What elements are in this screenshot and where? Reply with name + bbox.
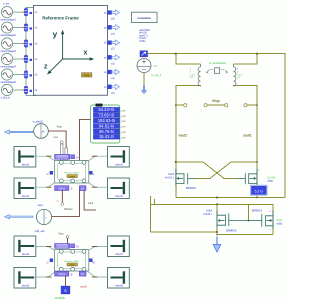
G9a: wires between clusters [57,191,97,248]
svg-text:D: D [47,173,49,176]
svg-text:wheel6: wheel6 [22,254,30,256]
junction Q1 drain [175,161,177,163]
svg-text:M: M [82,273,84,276]
L1 pin/value labels [189,69,195,79]
left pin labels [35,12,38,92]
svg-text:vi_abs(3): vi_abs(3) [33,121,43,124]
junction bottom rail right [256,197,258,199]
svg-text:1 Ω: 1 Ω [189,77,193,79]
svg-text:wheel8: wheel8 [115,286,123,288]
svg-text:y: y [53,29,58,39]
source V2 [1,22,12,33]
svg-text:f=50s: f=50s [139,40,146,43]
svg-text:v_sin: v_sin [3,1,10,5]
svg-text:sout1: sout1 [243,134,252,138]
junction Q3 drain [216,203,218,205]
svg-text:pmsm: pmsm [69,176,75,178]
svg-text:sineVoltage4: sineVoltage4 [1,65,17,69]
svg-text:#750: #750 [268,180,274,183]
axes [47,30,94,75]
svg-text:vkp1: vkp1 [38,204,44,207]
svg-text:Vtop: Vtop [58,231,64,235]
signal input connector on source V1 [140,51,148,57]
svg-text:39.76-5i: 39.76-5i [99,129,114,134]
inductor L1 [198,64,200,86]
y axis [62,34,64,60]
connecting rods [36,156,108,187]
svg-text:wheel2: wheel2 [22,165,30,167]
wire: Q3 gate feed vertical [248,204,250,220]
svg-text:VBellum: VBellum [64,208,73,211]
wire: cross-coupling A (left drain to Q2 gate) [176,162,237,178]
svg-text:sineVoltage3: sineVoltage3 [1,49,17,53]
G2: reference frame block [34,6,108,96]
svg-text:64.43+0i: 64.43+0i [98,107,114,112]
svg-text:vout2: vout2 [179,134,188,138]
svg-text:m0b2: m0b2 [276,222,283,225]
junction ground node [216,231,218,233]
wire source bottom to ground [143,73,145,87]
svg-text:constants: constants [137,16,151,20]
svg-text:1 Ω: 1 Ω [237,77,241,79]
svg-text:BRMRGS: BRMRGS [252,210,263,212]
machine block [55,161,89,184]
side pins [50,171,53,174]
svg-text:frame: frame [84,74,91,77]
G7: sensors [5,121,80,233]
wire: vout1 stub [247,104,257,106]
G4: constants block + parameter list [132,12,158,43]
wire: cross-coupling B (right drain to Q1 gate) [196,162,257,178]
svg-text:wheel4: wheel4 [115,196,123,198]
wheel boxes [14,147,36,168]
junction Q2 drain [256,161,258,163]
sensor2 output wire [52,216,80,218]
svg-text:_mid: _mid [119,115,126,118]
junction Q4 source rail [216,234,218,236]
svg-text:sineVoltage2: sineVoltage2 [1,33,17,37]
x axis [63,58,91,60]
G6: display column [79,104,126,161]
svg-text:wheel5: wheel5 [22,286,30,288]
svg-text:1.1: 1.1 [153,64,157,68]
pin vout2 [184,104,187,107]
junction node B (top rail / L2 feed) [256,53,258,55]
wire: L1 return / left loop vertical [176,85,201,197]
svg-text:VΩ=2: VΩ=2 [59,273,66,276]
svg-text:_mid: _mid [119,120,126,123]
svg-text:m: seriesInduct: m: seriesInduct [209,62,226,65]
svg-text:vLM_abs: vLM_abs [35,230,46,233]
svg-text:VΩ=2: VΩ=2 [59,188,66,191]
machine block [55,250,89,272]
pin vout1 [244,104,247,107]
transistor Q1 (upper left MOSFET) [176,169,196,186]
junction node A (top rail / L1 feed) [175,53,177,55]
inductor L2 [234,64,236,86]
ground G2 [213,237,221,253]
junction bottom rail left [216,196,218,198]
signal voltage source V1 [137,59,151,73]
ground G1 (blue) [142,86,147,94]
olive wires [148,54,286,235]
G9: cluster 2 (lower wheel/machine group) [14,236,129,300]
wire: feed to inductor L1 [176,54,201,64]
pipes from sensors down to block [61,144,64,161]
G5: right circuit [137,51,285,252]
svg-text:5.2 G: 5.2 G [255,189,264,193]
junction vout1 stub [256,104,258,106]
transistor Q2 (upper right MOSFET) [237,169,257,186]
svg-text:153.63-0i: 153.63-0i [98,118,115,123]
svg-text:15.41-2i: 15.41-2i [99,134,114,139]
wire: top rail [148,54,286,198]
svg-text:Vtop: Vtop [57,125,63,129]
wire: L2 return / right inner vertical [234,85,258,197]
svg-text:_mel: _mel [119,136,126,139]
purple connectors [55,154,70,159]
G8: cluster 1 (upper wheel/machine group) [14,141,129,199]
svg-text:stop: stop [54,136,59,139]
bottom sensor box [65,276,67,286]
svg-text:Reference Frame: Reference Frame [42,15,79,20]
wire: bottom rail of upper stage [176,197,285,199]
svg-text:Rm,abc_RLdq: Rm,abc_RLdq [65,261,80,263]
svg-text:x: x [84,50,88,57]
source V3 [1,38,12,49]
L2 pin/value labels [237,69,243,79]
svg-text:_mid: _mid [119,109,126,112]
purple connectors [55,244,70,249]
transistor Q4 (lower right MOSFET) [249,211,274,229]
sensor1 output wire [48,131,66,148]
source V1 [1,7,12,18]
svg-text:wheel7: wheel7 [115,254,123,256]
junction gate feed [248,220,250,222]
selected value display [251,186,267,196]
wire: lower stage bottom rails [150,231,217,233]
svg-text:pmsm: pmsm [69,264,75,266]
wire from display column down to machine block [79,120,90,161]
wire: feed to inductor L2 [234,54,258,64]
svg-text:M: M [82,188,84,191]
wheel boxes [14,236,36,257]
wire vertical bus [25,12,27,90]
svg-text:Vtop: Vtop [212,99,220,103]
source V5 [1,69,12,80]
pin Vtop left [204,104,207,107]
svg-text:D+: D+ [76,246,80,249]
svg-text:z: z [44,64,48,71]
svg-text:voull: voull [88,202,93,205]
junction vout2 stub [175,104,177,106]
svg-text:D: D [47,262,49,265]
svg-text:D+: D+ [76,156,80,159]
svg-text:sineVoltage1: sineVoltage1 [1,18,17,22]
svg-text:v_Eq_d: v_Eq_d [1,96,11,100]
svg-text:73.65+2i: 73.65+2i [98,113,114,118]
svg-text:wheel3: wheel3 [115,165,123,167]
svg-text:wheel1: wheel1 [22,196,30,198]
pin Vtop right [225,104,228,107]
G3: output arrows [108,10,120,95]
svg-text:BRMRGS: BRMRGS [186,188,197,190]
transistor Q3 (lower left MOSFET) [217,211,249,228]
svg-text:K=100 s: K=100 s [165,176,175,179]
svg-text:_mel: _mel [119,126,126,129]
wire: vout2 stub [176,104,184,106]
svg-text:K=100 s: K=100 s [203,213,213,216]
name tag [82,73,92,77]
source V6 [1,84,12,95]
wire: lower stage top rail [150,196,154,232]
z axis [50,59,63,72]
block body [34,6,108,96]
svg-text:sineVoltage5: sineVoltage5 [1,80,17,84]
source V4 [1,53,12,64]
svg-text:_mid: _mid [119,131,126,134]
svg-text:Rm,abc_RLdq: Rm,abc_RLdq [65,172,80,174]
wire: Vtop voltmeter stub [207,104,225,106]
right pin labels [104,13,107,89]
G1: left column of sine voltage sources [1,1,37,99]
svg-text:Vbc/RCB: Vbc/RCB [54,297,65,300]
svg-text:m_mq_1: m_mq_1 [151,73,162,77]
svg-text:BRMRGS: BRMRGS [226,231,237,233]
connecting rods [36,247,108,278]
svg-text:ncuA2: ncuA2 [80,286,87,289]
side pins [50,259,53,262]
svg-text:94.81-6i: 94.81-6i [99,123,114,128]
